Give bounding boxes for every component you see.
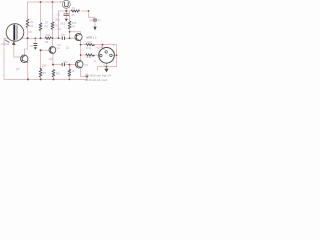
junction dots (27, 1, 118, 80)
wire Q3 collector jog to rail A (25, 38, 28, 55)
svg-text:4u7: 4u7 (57, 27, 62, 31)
transistor Q2 (49, 47, 56, 54)
wire row to R lower (81, 54, 100, 56)
svg-text:10u: 10u (63, 60, 68, 64)
wire rail B x=40.5 (40, 2, 42, 38)
resistor R3 vertical x=52.5 (51, 22, 54, 29)
svg-text:1K: 1K (71, 13, 74, 17)
capsule MK1 circle (6, 24, 24, 42)
ground arrow under C1 (34, 47, 37, 50)
svg-text:3: 3 (114, 51, 116, 55)
svg-text:R11: R11 (86, 46, 91, 50)
svg-text:C4: C4 (89, 18, 93, 22)
wire resistor F leads (40, 50, 42, 79)
capacitor C1 plates below row (33, 44, 37, 46)
svg-text:CZ034: CZ034 (1, 42, 10, 46)
wire capsule left lead + left drop (4, 38, 8, 79)
wire rail C x=52.5 (52, 2, 54, 47)
tick under XLR left stub (97, 70, 98, 71)
resistor R1 vertical x=27.5 (26, 19, 29, 28)
wire pin2 stub (103, 45, 105, 49)
XLR connector J1 circle (99, 48, 115, 64)
capsule arrow tick (13, 41, 16, 44)
svg-text:C2: C2 (57, 12, 61, 16)
svg-text:104: 104 (46, 33, 51, 37)
svg-text:10K: 10K (42, 63, 47, 67)
svg-text:47K: 47K (72, 21, 77, 25)
tube T1 U element (64, 2, 68, 7)
svg-text:10n: 10n (55, 17, 60, 21)
svg-text:22u: 22u (87, 40, 92, 44)
capacitor C5 series plates x=62-65 y=64.6 (62, 63, 64, 66)
tube T1 circle (62, 0, 70, 8)
XLR pin 2 (105, 51, 107, 53)
svg-text:R3: R3 (55, 24, 59, 28)
transistor Q3 (20, 55, 28, 63)
transistor Q4 (75, 60, 83, 68)
resistor R7 vertical x=40.6 (39, 70, 42, 78)
wire signal row y=38.2 (22, 37, 77, 39)
tick resistor R7 top (39, 68, 41, 70)
svg-text:Q1: Q1 (66, 45, 70, 49)
svg-text:R7: R7 (43, 71, 47, 75)
wire resistor G leads (53, 70, 55, 80)
svg-text:R1: R1 (30, 24, 34, 28)
wire bottom rail (4, 74, 87, 80)
resistor R2 vertical x=40.5 (39, 23, 42, 31)
svg-text:R8: R8 (56, 72, 60, 76)
wire Q4 emitter (81, 68, 87, 77)
wire Q2 emitter to cap to Q4 base (53, 53, 77, 64)
svg-text:R4: R4 (72, 24, 76, 28)
svg-text:Q3: Q3 (16, 67, 20, 71)
svg-text:Q4: Q4 (84, 63, 88, 67)
capacitor C2 plates (64, 14, 70, 16)
resistor R11 horizontal y=44.6 (86, 43, 95, 45)
wire y=11 bus (59, 10, 89, 12)
capsule diag mark (5, 40, 9, 43)
wire Q3 emitter drop (27, 62, 29, 79)
svg-text:2015-04-11 rev1: 2015-04-11 rev1 (85, 78, 107, 82)
XLR pin 1 (100, 54, 102, 56)
svg-text:1n: 1n (93, 59, 96, 63)
wire top bus (28, 1, 63, 3)
svg-text:R2: R2 (45, 25, 49, 29)
wire resistor E leads (68, 65, 70, 80)
svg-text:2K2: 2K2 (60, 21, 65, 25)
wire Q2 base (41, 49, 51, 51)
capsule diaphragm bars (13, 25, 15, 41)
svg-text:R5: R5 (45, 40, 49, 44)
svg-text:R12: R12 (86, 55, 91, 59)
svg-text:XLR: XLR (95, 45, 100, 49)
resistor R10 horizontal y=11 (71, 10, 79, 12)
wire rail A x=27.5 (27, 2, 29, 38)
wire cap branch below signal row (34, 38, 36, 47)
wire phantom branch (89, 11, 96, 27)
labels (1, 0, 116, 82)
capacitor C3 series plates x=62-65 (62, 37, 64, 40)
resistor R4 vertical x=69.6 (68, 21, 71, 29)
svg-text:BM-800 sch Apr 14: BM-800 sch Apr 14 (85, 73, 111, 77)
svg-text:1n: 1n (30, 44, 33, 48)
svg-text:Q2: Q2 (49, 57, 53, 61)
resistor R12 horizontal y=54.6 (86, 54, 95, 56)
wire tube lead down (65, 8, 67, 18)
wire capsule bottom lead to Q3 (14, 44, 21, 57)
svg-text:1K: 1K (72, 6, 75, 10)
wire row to R upper (81, 45, 117, 67)
wire XLR bottom (98, 63, 117, 69)
wire resistor D leads (69, 11, 71, 38)
svg-text:C6: C6 (28, 30, 32, 34)
arrow down phantom (93, 27, 96, 31)
svg-text:1u: 1u (57, 46, 60, 50)
wire Q1 emitter rail (80, 41, 82, 60)
svg-text:10n: 10n (61, 33, 66, 37)
resistor R8 vertical x=53.5 (52, 70, 55, 78)
resistor R5 horizontal y=38.2 (45, 37, 51, 40)
capacitor C4 phantom plates (93, 19, 97, 21)
svg-text:1G: 1G (30, 20, 34, 24)
resistor R6 vertical x=69.4 (68, 69, 71, 76)
wire pin3 stub (112, 54, 116, 56)
ground arrow under XLR (104, 69, 108, 73)
XLR pin 3 (110, 54, 112, 56)
ground arrow under C2 (65, 19, 68, 22)
svg-text:1u: 1u (98, 18, 101, 22)
transistor Q1 (75, 33, 82, 40)
svg-text:680R x 2: 680R x 2 (86, 35, 97, 39)
wire x=58.5 drop (58, 11, 60, 38)
svg-text:1K: 1K (71, 69, 74, 73)
wire collector jog Q1 (70, 32, 81, 35)
svg-text:1G: 1G (45, 21, 49, 25)
